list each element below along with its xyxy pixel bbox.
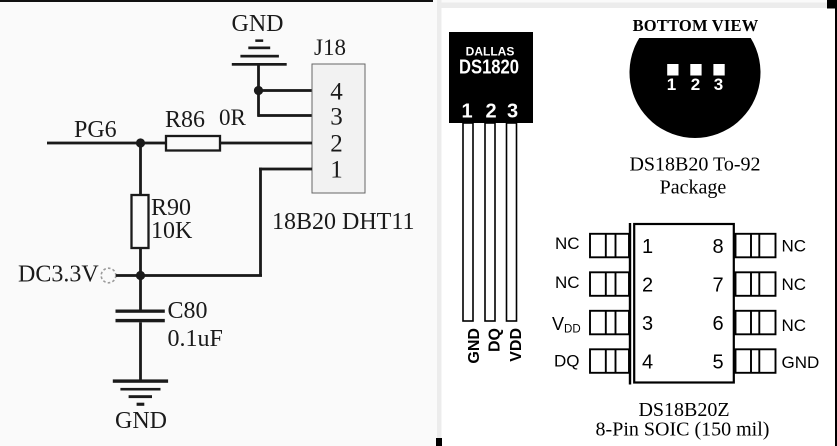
SOIC body [634,224,734,383]
svg-text:4: 4 [330,78,343,105]
svg-text:PG6: PG6 [74,117,117,143]
svg-text:3: 3 [642,313,653,335]
svg-text:1: 1 [642,236,653,258]
svg-text:R86: R86 [165,107,205,133]
ground symbol (bottom) [113,379,168,405]
right pad pin8 [736,234,776,257]
black right edge line [835,0,837,446]
svg-text:1: 1 [330,156,343,183]
lead 3 [507,123,517,321]
wire: junction down to R90 [139,143,142,195]
svg-text:5: 5 [712,352,723,374]
svg-text:Package: Package [660,177,727,199]
svg-text:GND: GND [232,11,284,37]
svg-text:NC: NC [782,316,807,335]
svg-text:BOTTOM VIEW: BOTTOM VIEW [633,16,759,35]
svg-text:2: 2 [330,130,343,157]
node: junction dot at GND/pin4 [254,86,263,95]
SOIC outer left line [629,223,631,385]
wire: GND stem down [257,66,260,93]
connector J18 box [312,64,365,193]
bottom view pin numbers 1 2 3 [667,75,723,94]
svg-text:DQ: DQ [487,328,504,352]
left pad pin3 [590,311,629,335]
svg-text:NC: NC [782,275,807,294]
wire: rail down to C80 [139,276,142,311]
top black bar [0,0,433,2]
svg-text:NC: NC [555,273,580,292]
black corner block top-right [827,0,837,9]
svg-text:2: 2 [485,101,496,123]
resistor R86 body [166,136,220,151]
SOIC pin numbers right [712,236,723,374]
wire: pin 1 horizontal [259,168,312,171]
capacitor C80 plates [116,310,165,323]
right pin labels [782,237,820,373]
resistor R90 body [132,195,149,248]
node: junction dot PG6/R90 [136,138,145,147]
node: junction dot 3.3V/C80 [136,271,145,280]
svg-text:DC3.3V: DC3.3V [18,262,99,288]
wire: R90 to 3.3V rail [139,248,142,276]
TO-92 front view body DS1820 [449,32,533,123]
svg-text:2: 2 [642,275,653,297]
right pad pin5 [736,349,776,373]
svg-text:1: 1 [461,101,472,123]
right panel white background [442,8,836,446]
wire: PG6 to R86 [47,142,166,145]
front pin numbers 1 2 3 [461,101,518,123]
svg-text:J18: J18 [314,35,346,60]
wire: R86 to pin 2 [220,142,312,145]
svg-text:DQ: DQ [554,352,580,371]
svg-text:7: 7 [712,275,723,297]
svg-text:3: 3 [507,101,518,123]
left pad pin4 [590,349,629,373]
svg-text:VDD: VDD [508,328,525,362]
svg-text:NC: NC [555,234,580,253]
svg-text:0.1uF: 0.1uF [168,326,223,352]
svg-text:GND: GND [115,408,167,434]
svg-text:DS18B20 To-92: DS18B20 To-92 [629,154,760,176]
svg-text:6: 6 [712,313,723,335]
black small square bottom of gray strip [436,438,442,446]
wire: to pin 4 [258,89,312,92]
lead 1 [463,123,473,321]
svg-text:10K: 10K [151,218,193,244]
wire: stem down to pin3 level [257,91,260,117]
svg-text:DS1820: DS1820 [459,57,519,79]
svg-text:4: 4 [642,352,653,374]
lead 2 [485,123,495,321]
svg-text:GND: GND [466,328,483,364]
svg-text:8: 8 [712,236,723,258]
svg-text:GND: GND [782,353,820,372]
svg-text:1: 1 [667,75,676,94]
svg-text:18B20 DHT11: 18B20 DHT11 [272,209,414,235]
left pad pin2 [590,272,629,296]
right pad pin7 [736,272,776,296]
svg-text:C80: C80 [168,298,208,324]
svg-text:8-Pin SOIC (150 mil): 8-Pin SOIC (150 mil) [596,419,770,441]
svg-text:0R: 0R [219,105,247,130]
wire: C80 to ground [139,322,142,380]
right panel frame: horizontal gray strip [437,3,827,9]
wire: pin 1 vertical down to 3.3V rail [259,168,262,276]
bottom view pin squares [667,64,725,76]
svg-text:NC: NC [782,237,807,256]
SOIC pin numbers left [642,236,653,374]
wire: to pin 3 [258,114,312,117]
right panel frame: vertical gray strip [437,0,442,438]
wire: 3.3V rail horizontal [116,274,262,277]
svg-text:2: 2 [691,75,700,94]
right pad pin6 [736,311,776,335]
TO-92 bottom view disc [630,38,761,138]
DC3.3V open circle [101,268,116,283]
ground symbol (top, bars widen downward) [232,39,287,65]
left pin labels [552,234,581,371]
svg-text:3: 3 [330,103,343,130]
svg-text:3: 3 [714,75,723,94]
left pad pin1 [590,234,629,257]
